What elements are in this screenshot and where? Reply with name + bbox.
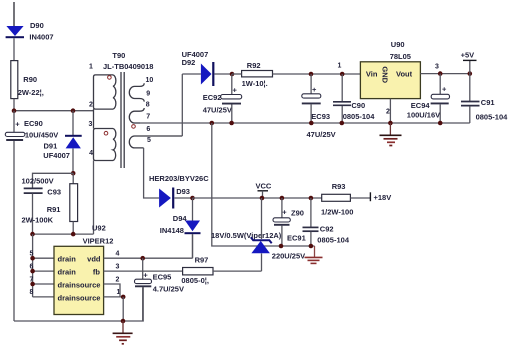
node pin7 junction [30, 282, 35, 287]
power VCC [256, 181, 272, 198]
node EC92 bottom junction [229, 121, 234, 126]
svg-text:EC91: EC91 [287, 234, 306, 243]
svg-text:vdd: vdd [87, 255, 101, 264]
capacitor EC92 [203, 74, 242, 123]
svg-text:Z90: Z90 [291, 209, 304, 218]
wire D90 to R90 [13, 38, 15, 61]
diode D90 [6, 21, 54, 42]
capacitor EC93 [302, 74, 336, 139]
svg-text:5: 5 [147, 137, 151, 144]
node U90 pin3 junction [438, 71, 443, 76]
wire secondary ground rail [133, 122, 470, 124]
node D91 top junction [71, 108, 76, 113]
svg-text:UF4007: UF4007 [43, 151, 70, 160]
svg-text:0805-0¦,: 0805-0¦, [181, 276, 209, 285]
svg-text:D91: D91 [44, 142, 58, 151]
wire snubber bottom rail [33, 233, 94, 235]
svg-text:D90: D90 [30, 21, 44, 30]
svg-text:+: + [282, 208, 287, 217]
resistor R97 [181, 255, 261, 285]
svg-text:Vout: Vout [396, 70, 413, 79]
svg-text:T90: T90 [112, 51, 125, 60]
node rail-down junction [210, 121, 215, 126]
wire U90 pin2 ground [389, 99, 391, 123]
wire D92 feed vertical [181, 74, 183, 136]
svg-text:drain: drain [58, 268, 77, 277]
svg-text:D93: D93 [176, 187, 190, 196]
svg-text:0805-104: 0805-104 [317, 236, 350, 245]
capacitor C93 [22, 177, 62, 234]
ground bottom-left [113, 321, 133, 344]
resistor R90 [11, 61, 44, 99]
wire U92 pin2 [104, 284, 120, 297]
wire snubber top [33, 173, 74, 188]
capacitor EC90 [5, 111, 58, 140]
svg-text:C91: C91 [481, 98, 495, 107]
node bottom ground junction [121, 319, 126, 324]
svg-text:+: + [312, 85, 317, 94]
svg-text:EC93: EC93 [311, 112, 330, 121]
node C90 bottom junction [340, 121, 345, 126]
wire transformer pin4 lead [93, 161, 95, 235]
svg-text:JL-TB0409018: JL-TB0409018 [103, 62, 153, 71]
svg-text:drainsource: drainsource [58, 281, 101, 290]
wire U92 pin3 fb [104, 270, 183, 272]
node C92 bottom junction [309, 244, 314, 249]
svg-text:10: 10 [146, 77, 154, 84]
svg-text:7: 7 [146, 114, 150, 121]
zener Z90 [211, 198, 304, 271]
svg-text:C90: C90 [351, 101, 365, 110]
capacitor C92 [303, 198, 350, 246]
svg-text:drain: drain [58, 255, 77, 264]
wire pin5 to D93 [144, 148, 159, 198]
ground under U90 [380, 123, 402, 146]
svg-text:fb: fb [93, 268, 100, 277]
svg-text:EC94: EC94 [411, 101, 431, 110]
wire AC input top [13, 2, 15, 27]
node +5V corner junction [468, 71, 473, 76]
svg-text:R90: R90 [23, 75, 37, 84]
svg-text:+: + [442, 85, 447, 94]
svg-text:8: 8 [146, 102, 150, 109]
svg-text:C93: C93 [47, 188, 61, 197]
svg-text:4.7U/25V: 4.7U/25V [153, 284, 184, 293]
wire vdd up to D94 [192, 234, 194, 258]
svg-text:78L05: 78L05 [390, 52, 411, 61]
svg-text:220U/25V: 220U/25V [272, 252, 305, 261]
svg-text:102/500V: 102/500V [22, 177, 54, 186]
svg-text:+5V: +5V [461, 51, 475, 60]
svg-text:U90: U90 [391, 40, 405, 49]
node pin1 junction [121, 295, 126, 300]
svg-text:2: 2 [116, 276, 120, 283]
svg-text:47U/25V: 47U/25V [307, 130, 336, 139]
node EC94 bottom junction [438, 121, 443, 126]
svg-text:EC92: EC92 [203, 93, 222, 102]
power +5V [461, 51, 477, 74]
op-amp U90 regulator 78L05 [338, 40, 440, 116]
svg-text:R91: R91 [47, 205, 61, 214]
svg-text:5: 5 [30, 251, 34, 258]
svg-text:R93: R93 [332, 182, 346, 191]
node pin5 junction [30, 256, 35, 261]
wire U92 pin1 [104, 296, 124, 298]
wire main horizontal to transformer [14, 110, 94, 112]
svg-text:100U/16V: 100U/16V [407, 111, 440, 120]
node R91 bottom junction [71, 232, 76, 237]
resistor R91 [22, 173, 78, 234]
svg-text:+: + [143, 271, 148, 280]
svg-text:1: 1 [89, 64, 93, 71]
svg-text:D94: D94 [173, 214, 188, 223]
wire left border down [13, 141, 15, 321]
node snubber-left junction [30, 232, 35, 237]
svg-text:0805-104: 0805-104 [343, 112, 376, 121]
node D91 bottom junction [71, 171, 76, 176]
power +18V [370, 192, 391, 202]
node EC93 bottom junction [309, 121, 314, 126]
wire U92 pin6 [33, 270, 54, 272]
svg-text:IN4148: IN4148 [160, 226, 184, 235]
node vdd EC95 junction [140, 256, 145, 261]
capacitor EC94 [407, 74, 450, 123]
wire drain bus vertical [32, 234, 34, 297]
svg-text:+18V: +18V [374, 193, 392, 202]
svg-text:VCC: VCC [256, 181, 272, 190]
svg-text:2: 2 [89, 101, 93, 108]
svg-text:+: + [15, 120, 20, 129]
svg-text:HER203/BYV26C: HER203/BYV26C [149, 174, 209, 183]
capacitor EC91 [272, 198, 306, 261]
node D92 output junction [230, 72, 235, 77]
svg-text:8: 8 [30, 289, 34, 296]
svg-text:2W-100K: 2W-100K [22, 216, 54, 225]
svg-text:0805-104: 0805-104 [476, 112, 509, 121]
svg-text:drainsource: drainsource [58, 294, 101, 303]
diode D94 [160, 198, 201, 258]
svg-text:+: + [233, 86, 238, 95]
wire U92 pin5 [33, 257, 54, 259]
svg-text:3: 3 [435, 63, 439, 70]
ic U92 VIPER12 [30, 224, 121, 315]
svg-text:1: 1 [338, 62, 342, 69]
svg-text:EC95: EC95 [153, 272, 172, 281]
diode D93 [149, 174, 209, 209]
wire R90 to node [13, 99, 15, 111]
svg-text:2W-22¦,: 2W-22¦, [18, 88, 44, 97]
svg-text:EC90: EC90 [24, 119, 43, 128]
svg-text:4: 4 [116, 251, 120, 258]
node U90 gnd junction [388, 121, 393, 126]
wire U92 pin8 [33, 296, 54, 298]
resistor R93 [321, 182, 370, 216]
svg-text:U92: U92 [92, 224, 106, 233]
svg-text:R97: R97 [195, 255, 209, 264]
wire pin1 down [122, 297, 124, 321]
svg-text:3: 3 [116, 263, 120, 270]
svg-text:18V/0.5W(Viper12A): 18V/0.5W(Viper12A) [211, 231, 282, 240]
resistor R92 [232, 61, 360, 88]
ground near C92 [305, 246, 323, 263]
node C92 top junction [309, 196, 314, 201]
wire VCC rail [193, 197, 322, 199]
wire U90 pin3 out [420, 73, 469, 75]
svg-text:Vin: Vin [366, 70, 378, 79]
capacitor EC95 [135, 258, 184, 321]
svg-text:7: 7 [30, 276, 34, 283]
svg-text:6: 6 [30, 263, 34, 270]
node EC91 bottom junction [279, 244, 284, 249]
node EC91 top junction [280, 196, 285, 201]
svg-text:R92: R92 [247, 61, 261, 70]
wire bottom rail [14, 287, 143, 321]
wire U92 pin4 vdd [104, 257, 193, 259]
svg-text:2: 2 [386, 108, 390, 115]
svg-text:9: 9 [146, 91, 150, 98]
svg-text:3: 3 [89, 121, 93, 128]
svg-text:VIPER12: VIPER12 [83, 237, 114, 246]
node EC93 top junction [309, 72, 314, 77]
svg-text:GND: GND [381, 66, 390, 83]
node D93 output junction [190, 196, 195, 201]
svg-text:1/2W-100: 1/2W-100 [321, 207, 353, 216]
svg-text:6: 6 [146, 126, 150, 133]
node pin6 junction [30, 269, 35, 274]
wire secondary-to-fb down [212, 123, 315, 246]
transformer T90 [89, 51, 183, 168]
svg-text:47U/25V: 47U/25V [203, 105, 232, 114]
svg-text:D92: D92 [182, 58, 196, 67]
svg-text:IN4007: IN4007 [29, 33, 53, 42]
node main-left junction [12, 108, 17, 113]
svg-text:10U/450V: 10U/450V [25, 131, 58, 140]
diode D92 [182, 50, 232, 86]
node C90 top junction [340, 72, 345, 77]
diode D91 [43, 111, 81, 174]
wire U92 pin7 [33, 283, 54, 285]
node VCC junction [260, 196, 265, 201]
svg-text:C92: C92 [320, 224, 334, 233]
svg-text:4: 4 [89, 150, 93, 157]
svg-text:1W-10¦.: 1W-10¦. [242, 79, 268, 88]
capacitor C91 [461, 74, 508, 123]
capacitor C90 [333, 74, 375, 123]
